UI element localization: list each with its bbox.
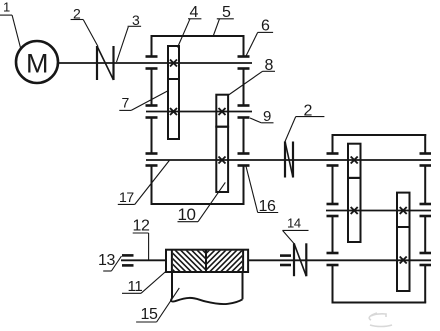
bearing shaft II right wall (238, 106, 250, 118)
label 5 (213, 4, 233, 35)
gear 4 hub cross (170, 60, 177, 67)
label 16 (246, 166, 278, 216)
bearing shaft I right wall (238, 57, 250, 69)
bearing shaft III right wall (238, 154, 250, 166)
gear C1 hub cross (400, 257, 407, 264)
svg-text:17: 17 (119, 189, 134, 205)
gear 4 (168, 46, 179, 79)
bearing shaft I left wall (146, 57, 158, 69)
drum hatching left section (148, 245, 235, 277)
gearbox 2 left wall (332, 134, 334, 303)
gear A1 hub cross (351, 157, 358, 164)
shaft B (326, 210, 431, 212)
label 12 (133, 218, 150, 261)
label 17 (118, 160, 170, 205)
gear 8 hub cross (219, 108, 226, 115)
label 13 (98, 252, 122, 271)
faint watermark ghost (369, 313, 392, 327)
gear B1 hub cross (351, 207, 358, 214)
coupling 2 diagonal (97, 46, 114, 80)
label 7 (119, 91, 167, 110)
drum shell left edge (171, 272, 173, 298)
label 4 (178, 4, 202, 47)
svg-text:3: 3 (132, 12, 140, 28)
gearbox 2 top wall (332, 134, 427, 136)
coupling 14 left half (293, 243, 295, 276)
label 2 (71, 5, 98, 46)
plain bearing right of drum (280, 256, 291, 265)
drum shell break wavy line (171, 298, 243, 304)
shaft II (146, 111, 252, 113)
gear C1 (397, 227, 410, 291)
svg-text:1: 1 (3, 0, 10, 15)
shaft C (248, 259, 431, 261)
gear A1 (348, 144, 361, 178)
coupling 14 right half (305, 243, 307, 276)
drum right flange line (242, 250, 244, 272)
drum shell right edge (242, 272, 244, 299)
drum hatching right section (177, 245, 270, 277)
drum shaft left (121, 259, 166, 261)
coupling 2 right half (112, 46, 114, 80)
gearbox 2 bottom wall (332, 302, 427, 304)
bearing shaft C left wall (327, 253, 339, 265)
bearing shaft II left wall (146, 106, 158, 118)
svg-text:14: 14 (287, 216, 301, 231)
bearing shaft B left wall (327, 204, 339, 216)
svg-text:11: 11 (128, 278, 143, 295)
label 6 (246, 18, 273, 56)
gearbox 1 right wall (243, 35, 245, 204)
gear B2 (397, 193, 410, 227)
label 2 (second) (285, 103, 325, 143)
coupling 2 (motor shaft) left half (96, 46, 98, 80)
drum centre divider (205, 250, 207, 272)
bearing shaft A right wall (420, 154, 432, 166)
label 9 (250, 108, 274, 125)
bearing shaft A left wall (327, 154, 339, 166)
gearbox 1 bottom wall (151, 203, 245, 205)
gear B1 (348, 178, 361, 242)
gearbox 2 right wall (424, 134, 426, 303)
bearing shaft III left wall (146, 154, 158, 166)
label 11 (122, 272, 166, 295)
motor M circle (16, 41, 58, 83)
gear 10 (216, 127, 228, 192)
svg-text:12: 12 (133, 218, 150, 235)
bearing shaft B right wall (420, 204, 432, 216)
svg-text:7: 7 (122, 94, 130, 110)
svg-text:15: 15 (141, 306, 158, 323)
label 15 (136, 288, 179, 323)
gear 7 hub cross (170, 108, 177, 115)
bearing shaft C right wall (420, 253, 432, 265)
drum body (166, 250, 248, 272)
label 14 (283, 216, 309, 244)
shaft III (146, 159, 431, 161)
label 3 (117, 12, 142, 62)
drum left flange line (171, 250, 173, 272)
svg-text:13: 13 (98, 252, 115, 269)
gear 8 (216, 95, 228, 127)
gear B2 hub cross (400, 207, 407, 214)
svg-text:M: M (26, 49, 48, 79)
gear 7 (168, 79, 179, 139)
gearbox 1 left wall (151, 35, 153, 204)
shaft I (58, 62, 252, 64)
gear 10 hub cross (219, 157, 226, 164)
plain bearing left of drum (122, 255, 134, 265)
coupling 14 diagonal (294, 243, 306, 276)
coupling 2 (intermediate shaft) left half (284, 142, 286, 178)
coupling 2 diagonal (285, 142, 293, 178)
coupling 2 right half (292, 142, 294, 178)
label 1 (0, 0, 21, 48)
label 10 (178, 182, 226, 224)
label 8 (229, 57, 276, 95)
gearbox 1 top wall (151, 35, 245, 37)
